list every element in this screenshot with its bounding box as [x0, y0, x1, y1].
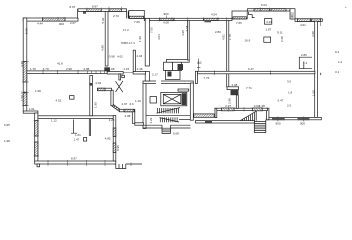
- svg-text:4.44: 4.44: [37, 22, 43, 26]
- wall H above shafts: [167, 59, 190, 62]
- svg-text:1.70: 1.70: [30, 67, 36, 71]
- wall left of right room: [266, 108, 269, 120]
- stair triangle lower: [240, 111, 257, 121]
- svg-text:8.97: 8.97: [92, 5, 98, 9]
- svg-text:1.12: 1.12: [51, 119, 57, 123]
- svg-text:7.76: 7.76: [204, 76, 210, 80]
- stub below bottom-left corner: [37, 164, 40, 167]
- window W3 balcony bottom: [130, 16, 144, 18]
- wall right exterior: [315, 21, 318, 117]
- svg-text:2.48: 2.48: [137, 67, 143, 71]
- svg-text:3.60: 3.60: [254, 104, 260, 108]
- svg-text:1.61: 1.61: [29, 107, 35, 111]
- wall bottom-mid horizontal: [196, 121, 255, 123]
- svg-text:4.29: 4.29: [149, 117, 153, 123]
- svg-text:1.70: 1.70: [21, 91, 27, 95]
- big room right wall: [105, 11, 108, 66]
- svg-text:5.92: 5.92: [101, 17, 105, 23]
- svg-text:1.2: 1.2: [338, 60, 343, 64]
- svg-text:4.04: 4.04: [157, 34, 161, 40]
- wall top-left horizontal: [23, 18, 78, 21]
- fixtures right top: [265, 19, 272, 25]
- window W7: [254, 9, 269, 11]
- kitchen partition: [133, 50, 135, 71]
- svg-text:1.50: 1.50: [312, 90, 316, 96]
- window L2: [23, 93, 27, 106]
- partition P3: [227, 20, 229, 87]
- exterior stair right: [254, 120, 265, 133]
- elevator shaft: [161, 92, 187, 105]
- svg-text:8.97: 8.97: [71, 157, 77, 161]
- svg-text:4.48: 4.48: [185, 25, 189, 31]
- stair flight 2: [160, 117, 180, 122]
- left exterior wall: [23, 18, 27, 112]
- svg-text:1.15: 1.15: [123, 67, 129, 71]
- wall raised top section: [78, 9, 127, 12]
- svg-text:6.47: 6.47: [248, 67, 254, 71]
- svg-text:4.85: 4.85: [105, 136, 111, 140]
- bottom step landing: [116, 164, 142, 169]
- wall stub below corridor wall: [119, 74, 121, 80]
- closet partition P6: [89, 119, 90, 136]
- svg-text:4.61: 4.61: [300, 23, 306, 27]
- wall step-down right: [290, 9, 295, 19]
- svg-text:4.81: 4.81: [222, 34, 226, 40]
- svg-text:900: 900: [276, 122, 281, 126]
- svg-text:3.0: 3.0: [287, 80, 292, 84]
- svg-text:1.8: 1.8: [288, 91, 293, 95]
- svg-text:2.97: 2.97: [225, 104, 231, 108]
- wall bottom-right horizontal: [266, 117, 321, 119]
- svg-text:8.97: 8.97: [70, 5, 76, 9]
- svg-text:ЮВЛ-17.4: ЮВЛ-17.4: [121, 41, 135, 45]
- dim line near wall A: [197, 59, 200, 72]
- balcony box B1: [129, 10, 145, 18]
- svg-text:4.04: 4.04: [137, 54, 143, 58]
- svg-text:16.6: 16.6: [245, 39, 251, 43]
- svg-text:0.95: 0.95: [116, 145, 120, 151]
- left wall lower: [35, 113, 38, 161]
- wall E vertical: [132, 112, 135, 124]
- tiny box near stub: [122, 75, 125, 77]
- window L1: [23, 62, 27, 83]
- diagonal wall: [111, 104, 121, 112]
- svg-text:7.71: 7.71: [246, 86, 252, 90]
- svg-text:4.51: 4.51: [56, 99, 62, 103]
- svg-text:2.67: 2.67: [70, 21, 76, 25]
- wall F: [135, 123, 144, 125]
- pier P-c: [205, 121, 212, 124]
- svg-text:17.2: 17.2: [123, 28, 129, 32]
- wall G with door: [98, 88, 112, 91]
- svg-text:2.97: 2.97: [122, 102, 128, 106]
- svg-text:4.62: 4.62: [117, 55, 123, 59]
- svg-text:6.08: 6.08: [173, 132, 179, 136]
- window W9: [298, 19, 311, 22]
- svg-text:900: 900: [164, 12, 169, 16]
- svg-text:1.78: 1.78: [228, 34, 232, 40]
- svg-text:4.43: 4.43: [266, 20, 272, 24]
- svg-text:0.4: 0.4: [335, 50, 340, 54]
- svg-text:9.11: 9.11: [277, 31, 283, 35]
- svg-text:7.06: 7.06: [134, 20, 140, 24]
- svg-text:1.4: 1.4: [303, 61, 308, 65]
- room BL right wall: [113, 116, 116, 162]
- svg-text:6.04: 6.04: [261, 3, 267, 7]
- svg-text:4.48: 4.48: [20, 61, 24, 67]
- window W4: [160, 18, 174, 20]
- svg-text:2.98: 2.98: [66, 67, 72, 71]
- svg-text:+: +: [345, 5, 347, 9]
- svg-text:1.47: 1.47: [74, 138, 80, 142]
- svg-text:3.1: 3.1: [335, 70, 340, 74]
- pier P-d: [231, 90, 239, 96]
- svg-text:2.0: 2.0: [287, 104, 292, 108]
- svg-text:7.65: 7.65: [236, 21, 242, 25]
- window seg B1: [222, 108, 235, 111]
- stair core: left wall: [143, 83, 146, 129]
- svg-text:900: 900: [300, 122, 305, 126]
- room BL top wall: [38, 116, 113, 119]
- wall top-mid horizontal: [144, 18, 232, 20]
- svg-text:3.28: 3.28: [109, 118, 115, 122]
- wall stub above elevator: [178, 89, 189, 91]
- svg-text:2.88: 2.88: [84, 67, 90, 71]
- sill blob below W5: [205, 21, 212, 23]
- partition P2: [187, 20, 189, 60]
- stair core: bottom wall: [143, 125, 191, 128]
- svg-text:2.70: 2.70: [113, 14, 119, 18]
- core entry steps: [162, 125, 171, 133]
- svg-text:4.98: 4.98: [100, 45, 104, 51]
- svg-text:4.04: 4.04: [95, 81, 101, 85]
- window W10: [312, 19, 321, 22]
- bathroom box right room: [299, 57, 312, 68]
- wall connector vertical: [215, 108, 217, 117]
- window W6 balcony B2 bottom: [233, 17, 247, 19]
- svg-text:.98: .98: [110, 67, 115, 71]
- svg-text:1.61: 1.61: [290, 14, 294, 20]
- window L3: [35, 121, 38, 137]
- pier P-a: [272, 117, 285, 120]
- svg-text:1.48: 1.48: [259, 104, 265, 108]
- column on wall D: [70, 96, 75, 100]
- svg-text:900: 900: [59, 22, 64, 26]
- connector core to wall A: [195, 71, 197, 83]
- svg-text:1.2: 1.2: [198, 61, 203, 65]
- stair core: right wall: [190, 83, 193, 120]
- fixture box: [84, 138, 87, 142]
- wall top-right horizontal: [295, 19, 322, 22]
- pier big room: [104, 67, 110, 73]
- svg-text:41.8: 41.8: [57, 62, 63, 66]
- window W8: [271, 9, 286, 11]
- svg-text:4.08: 4.08: [163, 21, 169, 25]
- window W2b raised kitchen: [109, 9, 122, 12]
- wall step near x=250: [249, 12, 255, 18]
- dimension texts: [4, 3, 347, 161]
- dim ticks on hall wall: [43, 70, 105, 74]
- wall step-up left: [77, 9, 79, 19]
- svg-text:1.98: 1.98: [35, 89, 41, 93]
- stair core: top wall: [143, 81, 193, 84]
- wall step left bottom: [23, 111, 38, 113]
- bottom-left wall: [35, 161, 116, 164]
- svg-text:5.47: 5.47: [278, 99, 284, 103]
- window L5: [113, 128, 116, 137]
- vertical above diagonal: [111, 90, 113, 106]
- pier P-b: [298, 117, 310, 120]
- svg-text:1.90: 1.90: [94, 102, 98, 108]
- svg-text:4.08: 4.08: [125, 114, 131, 118]
- corridor wall left of core: [27, 71, 107, 74]
- window W2 raised: [87, 9, 102, 12]
- svg-text:2.6: 2.6: [130, 102, 135, 106]
- svg-text:4.79: 4.79: [43, 67, 49, 71]
- shaft blob at raised wall start: [83, 11, 86, 14]
- window seg B2: [253, 108, 263, 111]
- closet partition P5: [71, 120, 77, 134]
- svg-text:1.98: 1.98: [4, 139, 10, 143]
- stair landing line: [179, 119, 190, 121]
- wall top-right raised: [248, 9, 291, 11]
- window L4: [35, 142, 38, 156]
- svg-text:4.54: 4.54: [211, 13, 217, 17]
- elevator dark wall right: [182, 93, 187, 105]
- svg-text:6.95: 6.95: [4, 123, 10, 127]
- small vertical partition: [90, 76, 93, 116]
- wall I: [227, 87, 239, 90]
- step down to main wall: [127, 11, 129, 18]
- window L6: [113, 143, 116, 153]
- window W1 top-left: [43, 18, 66, 21]
- svg-text:2.17: 2.17: [152, 72, 158, 76]
- stair flight 1: [146, 108, 190, 116]
- window band vestibule: [194, 114, 215, 117]
- svg-text:1.99: 1.99: [138, 36, 142, 42]
- partition P1: [145, 18, 149, 66]
- svg-text:1.87: 1.87: [266, 28, 272, 32]
- wall corridor-bottom B: [215, 108, 268, 110]
- dimension ticks: [22, 7, 320, 166]
- svg-text:3.98: 3.98: [311, 31, 315, 37]
- door swing: [116, 81, 124, 92]
- wall E: [120, 109, 135, 112]
- svg-text:2.68: 2.68: [280, 36, 284, 42]
- shaft cluster above core: [164, 62, 184, 79]
- svg-text:1.19: 1.19: [135, 99, 141, 103]
- duct box left of elevator: [150, 97, 157, 104]
- window W5: [204, 18, 219, 20]
- corridor wall right part of door: [133, 72, 146, 75]
- svg-text:2.86: 2.86: [301, 53, 307, 57]
- balcony box B2: [232, 11, 247, 19]
- svg-text:2.08: 2.08: [232, 83, 238, 87]
- corridor wall A: [197, 71, 315, 74]
- svg-text:2.80: 2.80: [215, 30, 221, 34]
- svg-text:1.50: 1.50: [20, 95, 24, 101]
- door threshold line: [123, 71, 133, 73]
- partition P4: [236, 95, 238, 108]
- svg-text:0.98: 0.98: [109, 55, 115, 59]
- svg-text:5.98: 5.98: [25, 28, 29, 34]
- svg-text:7.06: 7.06: [149, 27, 153, 33]
